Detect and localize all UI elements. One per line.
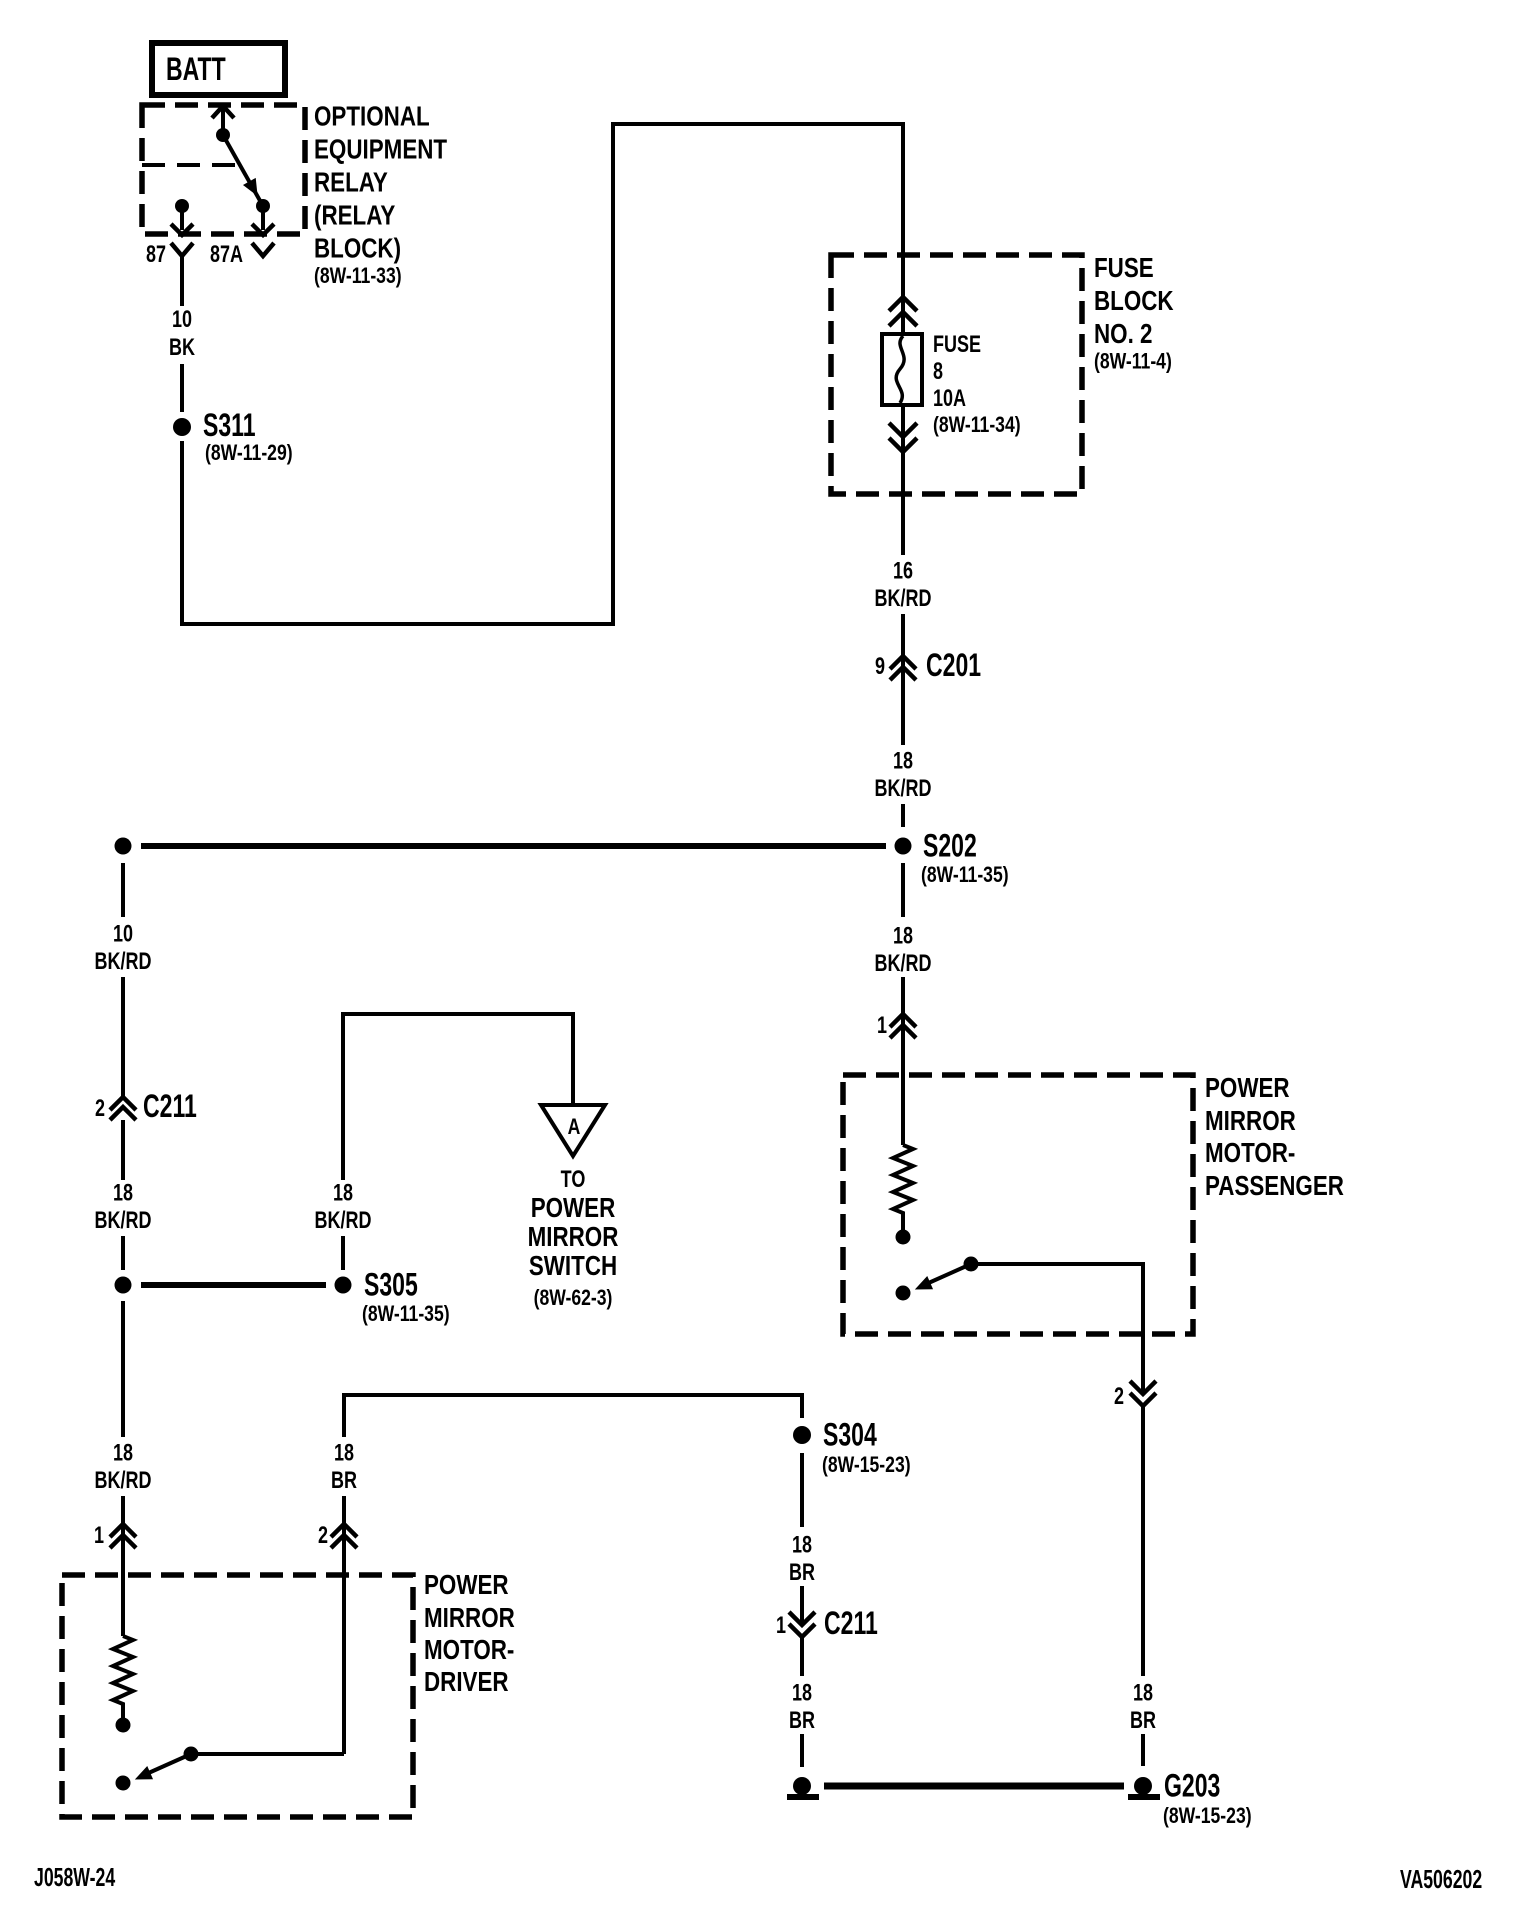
svg-text:18: 18	[792, 1680, 812, 1706]
wire passenger switch to pin 2	[971, 1264, 1143, 1410]
svg-text:(8W-15-23): (8W-15-23)	[822, 1453, 911, 1477]
power mirror motor passenger dashed box	[843, 1075, 1193, 1334]
svg-text:9: 9	[875, 654, 885, 680]
connector socket at 87A	[252, 243, 274, 256]
wire into C201	[901, 614, 905, 745]
ground G203	[1128, 1768, 1252, 1829]
svg-text:(RELAY: (RELAY	[314, 200, 395, 231]
svg-text:OPTIONAL: OPTIONAL	[314, 101, 430, 132]
fuse 8 10A	[882, 332, 1021, 438]
relay contact pin 87A	[252, 206, 274, 235]
wire label 18 BR mid	[331, 1440, 357, 1494]
fuse block heading	[1094, 253, 1174, 374]
wire to S305 junction	[121, 1236, 125, 1270]
wire label 10 BK/RD	[95, 921, 152, 975]
svg-text:MIRROR: MIRROR	[1205, 1106, 1296, 1137]
wire label 18 BK/RD	[315, 1180, 372, 1234]
relay inner divider (coil side)	[142, 163, 237, 167]
svg-text:A: A	[568, 1115, 581, 1139]
fuse block no.2 dashed box	[831, 255, 1082, 494]
svg-text:MIRROR: MIRROR	[528, 1222, 619, 1253]
svg-text:2: 2	[95, 1096, 105, 1122]
svg-text:(8W-62-3): (8W-62-3)	[534, 1286, 613, 1310]
driver motor switch	[116, 1747, 199, 1791]
svg-text:BR: BR	[331, 1468, 357, 1494]
wire passenger pin 2 down to ground	[1141, 1406, 1145, 1676]
passenger motor switch	[896, 1257, 979, 1301]
svg-text:87A: 87A	[210, 242, 243, 268]
svg-text:2: 2	[1114, 1384, 1124, 1410]
svg-text:EQUIPMENT: EQUIPMENT	[314, 134, 448, 165]
svg-text:BK/RD: BK/RD	[875, 776, 932, 802]
wire driver pin 2 into box	[342, 1548, 346, 1754]
svg-text:RELAY: RELAY	[314, 167, 388, 198]
svg-text:10: 10	[113, 921, 133, 947]
relay common arrow to BATT	[212, 106, 234, 142]
svg-text:10A: 10A	[933, 386, 966, 412]
ground bus bar	[824, 1783, 1124, 1790]
relay contact pin 87	[171, 199, 193, 235]
svg-text:BK/RD: BK/RD	[95, 1208, 152, 1234]
svg-text:18: 18	[333, 1180, 353, 1206]
relay switch arm	[223, 135, 270, 213]
connector pin 1 chevron (passenger)	[877, 1013, 916, 1039]
connector C211 lower	[776, 1605, 878, 1641]
fuse block outlet connector chevron	[889, 423, 917, 452]
svg-text:S202: S202	[923, 828, 977, 864]
svg-text:BR: BR	[1130, 1708, 1156, 1734]
svg-text:18: 18	[792, 1532, 812, 1558]
svg-text:NO. 2: NO. 2	[1094, 319, 1152, 350]
svg-text:MOTOR-: MOTOR-	[424, 1635, 514, 1666]
svg-text:BK/RD: BK/RD	[315, 1208, 372, 1234]
svg-text:S305: S305	[364, 1267, 418, 1303]
connector socket at 87	[171, 243, 193, 256]
svg-text:2: 2	[318, 1523, 328, 1549]
svg-text:1: 1	[94, 1523, 104, 1549]
svg-text:(8W-11-34): (8W-11-34)	[933, 413, 1021, 437]
svg-text:BATT: BATT	[166, 51, 226, 87]
svg-text:18: 18	[113, 1440, 133, 1466]
splice S202	[115, 828, 1009, 888]
svg-text:DRIVER: DRIVER	[424, 1667, 509, 1698]
svg-text:BR: BR	[789, 1560, 815, 1586]
connector C211 left	[95, 1088, 197, 1124]
wire into C211 lower	[800, 1586, 804, 1625]
svg-text:18: 18	[893, 923, 913, 949]
svg-text:BK/RD: BK/RD	[875, 951, 932, 977]
off-page arrow A to power mirror switch	[541, 1105, 605, 1156]
svg-text:87: 87	[146, 242, 166, 268]
wire S305 junction down to driver motor	[121, 1301, 125, 1437]
wire to C211	[121, 977, 125, 1097]
passenger motor resistor	[893, 1145, 913, 1245]
wire to G203	[1141, 1734, 1145, 1766]
ground symbol left	[787, 1777, 819, 1800]
svg-text:(8W-15-23): (8W-15-23)	[1163, 1804, 1252, 1828]
relay block heading	[314, 101, 448, 289]
wire fuse to C201	[901, 405, 905, 555]
wire label 16 BK/RD	[875, 558, 932, 612]
svg-text:BK/RD: BK/RD	[875, 586, 932, 612]
wire below C211 lower	[800, 1637, 804, 1676]
connector pin 1 chevron (driver)	[94, 1523, 136, 1549]
svg-text:POWER: POWER	[1205, 1073, 1290, 1104]
svg-text:J058W-24: J058W-24	[34, 1863, 116, 1892]
wire label 18 BK/RD	[875, 923, 932, 977]
svg-text:BLOCK): BLOCK)	[314, 233, 401, 264]
to power mirror switch caption	[528, 1167, 619, 1311]
wire label 18 BK/RD	[875, 748, 932, 802]
svg-text:C211: C211	[824, 1605, 878, 1641]
svg-text:(8W-11-33): (8W-11-33)	[314, 264, 402, 288]
svg-text:(8W-11-35): (8W-11-35)	[362, 1302, 450, 1326]
wire S304 down	[800, 1453, 804, 1527]
svg-text:8: 8	[933, 359, 943, 385]
svg-text:MOTOR-: MOTOR-	[1205, 1138, 1295, 1169]
svg-text:16: 16	[893, 558, 913, 584]
wire label 18 BR	[789, 1680, 815, 1734]
svg-text:SWITCH: SWITCH	[529, 1251, 617, 1282]
splice S305	[115, 1267, 450, 1327]
svg-text:VA506202: VA506202	[1400, 1865, 1482, 1894]
connector pin 2 chevron (driver)	[318, 1523, 357, 1549]
svg-text:C211: C211	[143, 1088, 197, 1124]
power mirror motor driver dashed box	[62, 1575, 413, 1817]
wire S305 up toward power mirror switch	[341, 1236, 345, 1270]
splice S311	[173, 407, 293, 465]
wire label 10 BK	[169, 307, 196, 361]
svg-text:18: 18	[334, 1440, 354, 1466]
wire label 18 BK/RD	[95, 1440, 152, 1494]
wire S202 down to passenger motor	[901, 863, 905, 917]
connector C201	[875, 647, 981, 683]
svg-text:18: 18	[893, 748, 913, 774]
wire over to triangle A	[343, 1014, 573, 1180]
fuse block inlet connector chevron	[889, 297, 917, 326]
svg-text:(8W-11-4): (8W-11-4)	[1094, 350, 1172, 374]
svg-text:BR: BR	[789, 1708, 815, 1734]
wire below C211	[121, 1120, 125, 1180]
svg-text:C201: C201	[926, 647, 981, 683]
svg-text:BK/RD: BK/RD	[95, 1468, 152, 1494]
BATT feed box	[152, 43, 285, 95]
S304 feed wire over driver box	[344, 1395, 802, 1548]
svg-text:TO: TO	[561, 1167, 586, 1193]
wire label 18 BR	[789, 1532, 815, 1586]
svg-text:S304: S304	[823, 1417, 877, 1453]
svg-text:BK/RD: BK/RD	[95, 949, 152, 975]
svg-text:POWER: POWER	[531, 1193, 616, 1224]
svg-text:S311: S311	[203, 407, 256, 443]
svg-text:POWER: POWER	[424, 1570, 509, 1601]
svg-text:FUSE: FUSE	[1094, 253, 1154, 284]
wire label 18 BR right	[1130, 1680, 1156, 1734]
wire to S202	[901, 804, 905, 827]
wire S311 to fuse block no.2	[182, 124, 903, 624]
driver motor resistor	[113, 1636, 133, 1733]
svg-text:(8W-11-29): (8W-11-29)	[205, 441, 293, 465]
svg-text:MIRROR: MIRROR	[424, 1603, 515, 1634]
svg-text:G203: G203	[1164, 1768, 1220, 1804]
driver motor heading	[424, 1570, 515, 1698]
wire 87 to S311 upper	[180, 256, 184, 306]
wire S202 left branch down	[121, 863, 125, 917]
wire driver switch to pin 2	[191, 1752, 344, 1756]
connector pin 2 chevron (passenger out)	[1114, 1381, 1156, 1410]
svg-text:1: 1	[877, 1013, 887, 1039]
passenger motor heading	[1205, 1073, 1344, 1202]
wire label 18 BK/RD	[95, 1180, 152, 1234]
svg-text:18: 18	[113, 1180, 133, 1206]
svg-text:BK: BK	[169, 335, 196, 361]
svg-text:1: 1	[776, 1613, 786, 1639]
optional equipment relay dashed box	[142, 105, 305, 234]
svg-text:18: 18	[1133, 1680, 1153, 1706]
svg-text:BLOCK: BLOCK	[1094, 286, 1174, 317]
wire to S311	[180, 364, 184, 412]
splice S304	[793, 1417, 911, 1478]
wire into passenger pin 1	[901, 977, 905, 1145]
svg-text:10: 10	[172, 307, 192, 333]
svg-text:(8W-11-35): (8W-11-35)	[921, 863, 1009, 887]
wire into driver pin 1	[121, 1496, 125, 1636]
svg-text:PASSENGER: PASSENGER	[1205, 1171, 1344, 1202]
svg-text:FUSE: FUSE	[933, 332, 981, 358]
wire to ground bar	[800, 1734, 804, 1767]
